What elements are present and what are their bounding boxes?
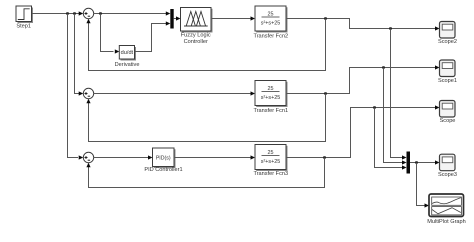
wire feedback2 to Sum2 — [89, 94, 326, 142]
arrow into Scope — [435, 105, 440, 109]
arrow into Sum1 bottom — [86, 19, 90, 24]
wire Mux1 to Fuzzy — [174, 18, 177, 20]
mux Mux2 — [407, 152, 411, 174]
svg-text:Transfer Fcn1: Transfer Fcn1 — [253, 108, 288, 114]
wire Transfer Fcn3 to Scope — [286, 108, 436, 158]
svg-text:Scope1: Scope1 — [438, 78, 457, 84]
wire branch down to Sum3 input — [68, 14, 79, 158]
arrow into Sum1 — [79, 11, 84, 15]
wire Sum2 to Transfer Fcn1 — [94, 93, 252, 95]
arrow into Mux2 input 1 — [402, 155, 407, 159]
svg-text:Step1: Step1 — [16, 23, 31, 29]
arrow into Mux1 input 1 — [166, 11, 171, 15]
arrow into Transfer Fcn3 — [251, 155, 256, 159]
arrow into Transfer Fcn2 — [251, 16, 256, 20]
block Transfer Fcn3 — [253, 145, 288, 178]
svg-text:Transfer Fcn3: Transfer Fcn3 — [253, 171, 288, 177]
wire branch down to Mux2 input 3 — [375, 108, 404, 168]
svg-text:Fuzzy Logic: Fuzzy Logic — [181, 33, 211, 39]
wire Transfer Fcn2 to Scope2 — [286, 19, 436, 29]
block Derivative du/dt — [115, 46, 140, 69]
block Transfer Fcn2 — [253, 6, 288, 40]
wire branch down to MultiPlot Graph — [417, 163, 426, 206]
svg-text:MultiPlot Graph: MultiPlot Graph — [427, 219, 466, 225]
wire feedback3 to Sum3 — [89, 158, 325, 188]
scope Scope1 — [438, 60, 457, 84]
wire Fuzzy to Transfer Fcn2 — [211, 18, 252, 20]
arrow into MultiPlot Graph — [425, 203, 430, 207]
wire branch down to Sum2 input — [75, 14, 81, 94]
arrow into Scope3 — [435, 160, 440, 164]
block Transfer Fcn1 — [253, 81, 288, 115]
arrow into Sum2 — [79, 91, 84, 95]
block PID Controller1 — [144, 148, 182, 173]
junction node derivative branch — [99, 12, 101, 14]
junction node feedback2 — [324, 92, 326, 94]
wire branch down to Derivative — [101, 14, 114, 52]
mux Mux1 — [170, 9, 173, 29]
wire Derivative output up to Mux1 second input — [135, 24, 167, 52]
arrow into Sum2 bottom — [86, 99, 90, 104]
arrow into Transfer Fcn1 — [251, 91, 256, 95]
sum junction Sum2 — [83, 88, 93, 98]
svg-text:du/dt: du/dt — [121, 50, 134, 56]
scope Scope3 — [438, 154, 457, 178]
block MultiPlot Graph — [427, 194, 466, 225]
block Step1 — [16, 6, 33, 29]
block Fuzzy Logic Controller — [181, 8, 213, 46]
junction node branch to MultiPlot — [415, 161, 417, 163]
svg-text:Transfer Fcn2: Transfer Fcn2 — [253, 34, 288, 40]
svg-text:s²+s+25: s²+s+25 — [261, 159, 280, 165]
sum junction Sum1 — [83, 8, 93, 18]
wire feedback1 to Sum1 — [89, 19, 326, 71]
wire Mux2 to Scope3 — [410, 162, 436, 164]
arrow into Scope2 — [435, 26, 440, 30]
svg-text:Controller: Controller — [184, 39, 208, 45]
wire PID to Transfer Fcn3 — [174, 157, 252, 159]
sum junction Sum3 — [83, 152, 93, 162]
scope Scope2 — [438, 22, 457, 46]
arrow into Sum3 bottom — [86, 163, 90, 168]
wire Sum3 to PID Controller1 — [94, 157, 149, 159]
svg-text:Scope3: Scope3 — [438, 172, 457, 178]
wire branch down to Mux2 input 1 — [391, 29, 404, 158]
arrow into Mux2 input 3 — [402, 165, 407, 169]
junction node feedback3 — [323, 156, 325, 158]
junction node branch to Mux2 input3 — [373, 106, 375, 108]
arrow into Derivative — [115, 49, 120, 53]
svg-text:s²+s+25: s²+s+25 — [261, 95, 280, 101]
svg-text:Scope2: Scope2 — [438, 39, 457, 45]
wire Step1 to Sum1 — [32, 13, 80, 15]
arrow into PID Controller1 — [148, 155, 153, 159]
svg-text:Scope: Scope — [440, 118, 456, 124]
junction node branch to Sum3 — [66, 12, 68, 14]
junction node branch to Mux2 input1 — [389, 27, 391, 29]
wire Transfer Fcn1 to Scope1 — [286, 68, 436, 94]
arrow into Mux2 input 2 — [402, 160, 407, 164]
wire Sum1 output to Mux1 — [94, 13, 167, 15]
wire branch down to Mux2 input 2 — [384, 68, 404, 163]
svg-text:s²+s+25: s²+s+25 — [261, 21, 280, 27]
svg-text:PID(s): PID(s) — [156, 155, 171, 161]
svg-text:PID Controller1: PID Controller1 — [144, 167, 182, 173]
arrow into Mux1 input 2 — [166, 21, 171, 25]
arrow into Scope1 — [435, 65, 440, 69]
junction node feedback1 — [324, 17, 326, 19]
svg-text:Derivative: Derivative — [115, 62, 140, 68]
arrow into Fuzzy Logic Controller — [176, 16, 181, 20]
arrow into Sum3 — [79, 155, 84, 159]
junction node branch to Mux2 input2 — [382, 66, 384, 68]
junction node branch to Sum2 — [73, 12, 75, 14]
scope Scope — [440, 101, 456, 125]
